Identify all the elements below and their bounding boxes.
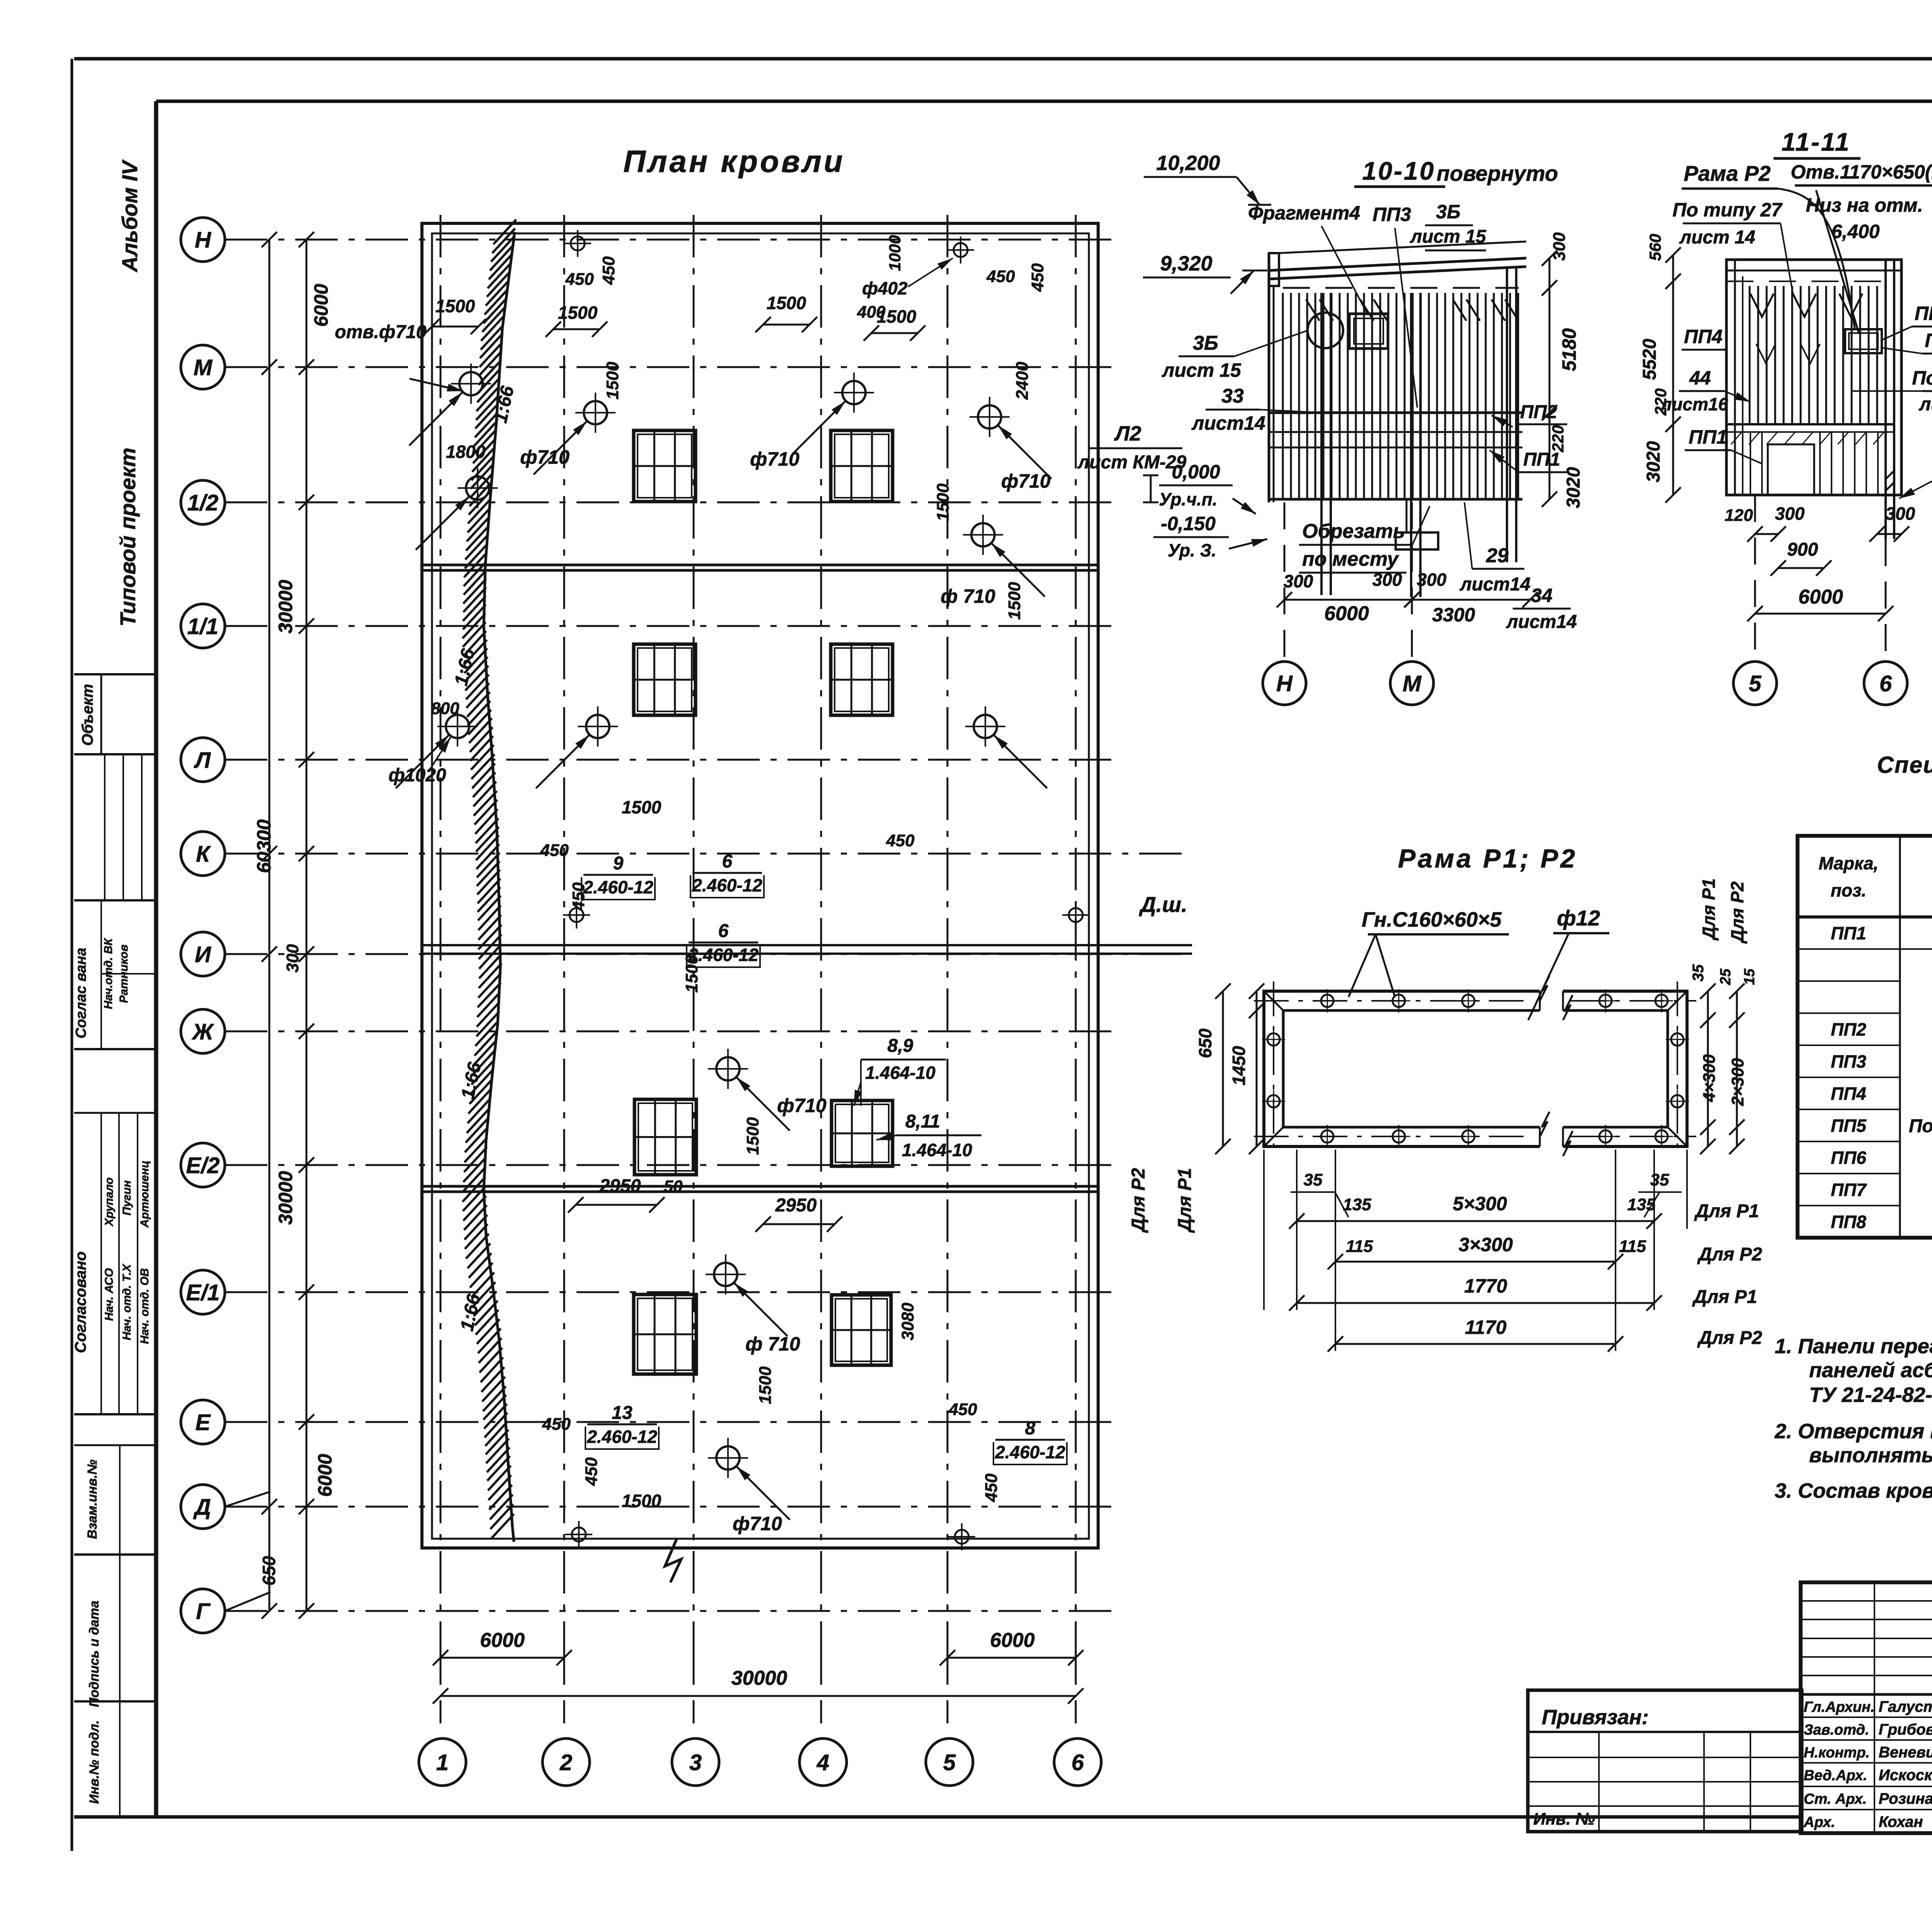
svg-text:450: 450 (1028, 263, 1047, 292)
svg-text:3Б: 3Б (1193, 332, 1218, 354)
svg-text:Марка,: Марка, (1819, 853, 1879, 873)
svg-text:Для Р2: Для Р2 (1128, 1168, 1149, 1233)
svg-text:300: 300 (1372, 570, 1402, 590)
svg-text:44: 44 (1689, 367, 1711, 389)
svg-text:1500: 1500 (435, 296, 475, 316)
svg-text:лист 15: лист 15 (1162, 359, 1242, 381)
svg-text:5: 5 (943, 1750, 956, 1775)
svg-text:ПП6: ПП6 (1831, 1148, 1866, 1168)
svg-text:300: 300 (1775, 503, 1805, 524)
svg-text:поз.: поз. (1831, 880, 1866, 900)
svg-text:220: 220 (1651, 388, 1670, 416)
svg-text:повернуто: повернуто (1437, 161, 1558, 185)
svg-text:1450: 1450 (1229, 1046, 1249, 1085)
svg-text:60300: 60300 (253, 819, 275, 873)
svg-text:33: 33 (1221, 385, 1244, 407)
svg-text:Обрезать: Обрезать (1302, 520, 1405, 543)
svg-text:1500: 1500 (767, 293, 806, 313)
svg-text:Хрупало: Хрупало (103, 1177, 116, 1227)
svg-text:1500: 1500 (558, 303, 598, 323)
svg-text:6: 6 (722, 851, 733, 872)
svg-text:Ст. Арх.: Ст. Арх. (1804, 1791, 1867, 1807)
svg-text:4×300: 4×300 (1700, 1054, 1719, 1102)
svg-text:Гл.Архин.: Гл.Архин. (1804, 1699, 1875, 1715)
svg-text:панелей асбестоцементных экс: панелей асбестоцементных экструзионных м… (1809, 1359, 1932, 1382)
svg-text:2950: 2950 (599, 1176, 641, 1196)
svg-text:ПП1: ПП1 (1831, 923, 1866, 943)
svg-text:6000: 6000 (990, 1629, 1035, 1652)
svg-text:3×300: 3×300 (1459, 1234, 1513, 1255)
svg-text:лист14: лист14 (1506, 612, 1577, 632)
svg-text:9: 9 (613, 853, 624, 874)
svg-text:35: 35 (1690, 964, 1707, 981)
svg-text:6,400: 6,400 (1831, 221, 1879, 242)
svg-text:Вед.Арх.: Вед.Арх. (1804, 1767, 1867, 1784)
svg-text:6: 6 (1879, 671, 1892, 696)
svg-text:ф12: ф12 (1557, 906, 1600, 930)
svg-text:Нач. отд. ОВ: Нач. отд. ОВ (138, 1268, 151, 1344)
svg-text:3080: 3080 (898, 1303, 917, 1340)
svg-text:Соглас вана: Соглас вана (73, 947, 89, 1038)
svg-text:5180: 5180 (1558, 328, 1580, 371)
svg-text:Для Р1: Для Р1 (1694, 1201, 1759, 1221)
svg-text:3Б: 3Б (1436, 201, 1460, 223)
svg-text:Веневцева: Веневцева (1879, 1744, 1932, 1761)
svg-text:М: М (194, 355, 213, 380)
svg-text:Согласовано: Согласовано (72, 1252, 89, 1353)
svg-text:Артюшенц: Артюшенц (138, 1160, 151, 1228)
svg-text:1/2: 1/2 (187, 490, 219, 515)
svg-text:115: 115 (1619, 1237, 1646, 1256)
svg-text:450: 450 (986, 267, 1015, 286)
svg-text:Для Р1: Для Р1 (1699, 878, 1719, 941)
svg-text:8,11: 8,11 (905, 1111, 940, 1132)
svg-text:Гн.С160×60×5: Гн.С160×60×5 (1362, 908, 1502, 931)
svg-text:лист 17: лист 17 (1918, 394, 1932, 415)
svg-text:220: 220 (1549, 425, 1567, 452)
svg-text:4: 4 (816, 1750, 829, 1775)
svg-text:ППБ: ППБ (1925, 330, 1932, 351)
svg-text:Привязан:: Привязан: (1542, 1706, 1649, 1729)
svg-text:450: 450 (542, 1415, 571, 1434)
svg-text:1000: 1000 (886, 235, 904, 271)
svg-text:Для Р2: Для Р2 (1727, 881, 1747, 944)
svg-text:450: 450 (599, 256, 618, 285)
svg-text:300: 300 (1417, 570, 1447, 590)
svg-text:5520: 5520 (1639, 338, 1660, 380)
svg-text:450: 450 (565, 270, 594, 289)
svg-text:120: 120 (1725, 506, 1753, 525)
svg-text:Е: Е (196, 1410, 211, 1435)
svg-text:8: 8 (1025, 1418, 1036, 1439)
svg-text:2.460-12: 2.460-12 (583, 877, 653, 897)
svg-text:ф 710: ф 710 (940, 585, 995, 607)
svg-text:3020: 3020 (1643, 441, 1664, 482)
svg-text:6000: 6000 (480, 1629, 525, 1652)
svg-text:1. Панели перегородок марок: 1. Панели перегородок марок ПП2...ПП7 на… (1775, 1335, 1932, 1358)
svg-text:900: 900 (1787, 539, 1818, 560)
svg-text:Рама Р1; Р2: Рама Р1; Р2 (1398, 844, 1577, 873)
svg-text:300: 300 (1284, 571, 1313, 591)
svg-text:1.464-10: 1.464-10 (902, 1140, 972, 1160)
svg-text:1800: 1800 (446, 442, 486, 462)
svg-text:План кровли: План кровли (623, 144, 845, 179)
svg-text:Пугин: Пугин (121, 1180, 133, 1216)
svg-text:Инв.№ подл.: Инв.№ подл. (87, 1720, 102, 1804)
svg-text:2950: 2950 (775, 1195, 817, 1216)
svg-text:650: 650 (1195, 1028, 1215, 1058)
svg-text:3: 3 (689, 1750, 702, 1775)
svg-text:Н.контр.: Н.контр. (1804, 1745, 1870, 1761)
svg-text:9,320: 9,320 (1160, 252, 1212, 275)
svg-text:ф710: ф710 (1001, 470, 1051, 492)
svg-text:Арх.: Арх. (1803, 1814, 1835, 1830)
svg-text:ф710: ф710 (733, 1513, 782, 1534)
svg-text:3. Состав кровли см. лист 4.: 3. Состав кровли см. лист 4. (1775, 1479, 1932, 1502)
svg-text:Е/1: Е/1 (186, 1280, 219, 1305)
svg-text:450: 450 (886, 831, 915, 850)
svg-text:1500: 1500 (1005, 582, 1024, 620)
svg-text:ПП8: ПП8 (1831, 1212, 1866, 1232)
svg-text:ф710: ф710 (777, 1095, 827, 1116)
svg-text:300: 300 (1550, 232, 1569, 261)
svg-text:Кохан: Кохан (1879, 1813, 1923, 1830)
svg-text:30000: 30000 (731, 1667, 787, 1689)
svg-text:Для Р1: Для Р1 (1692, 1287, 1757, 1307)
svg-text:По типу ТУ21-24-82-81: По типу ТУ21-24-82-81 (1909, 1116, 1932, 1136)
svg-text:К: К (196, 842, 211, 867)
svg-text:лист КМ-29: лист КМ-29 (1077, 452, 1187, 473)
svg-text:1500: 1500 (934, 483, 952, 521)
svg-text:Нач.отд. ВК: Нач.отд. ВК (102, 937, 115, 1009)
svg-text:выполнять по месту по доку: выполнять по месту по документам ТХ, ОВ,… (1809, 1444, 1932, 1467)
svg-text:И: И (195, 942, 211, 967)
svg-text:35: 35 (1650, 1170, 1669, 1189)
svg-text:ТУ 21-24-82-81.: ТУ 21-24-82-81. (1809, 1383, 1932, 1407)
svg-text:Ур. З.: Ур. З. (1168, 540, 1216, 560)
svg-text:0,000: 0,000 (1172, 461, 1220, 483)
svg-text:По типу 50: По типу 50 (1912, 367, 1932, 389)
svg-text:Н: Н (195, 228, 211, 253)
svg-text:13: 13 (612, 1403, 633, 1423)
svg-text:1500: 1500 (603, 362, 622, 400)
svg-text:По типу 27: По типу 27 (1672, 199, 1782, 221)
svg-text:2: 2 (560, 1750, 572, 1775)
svg-text:15: 15 (1742, 968, 1758, 985)
svg-text:10,200: 10,200 (1156, 151, 1220, 175)
svg-text:Для Р2: Для Р2 (1697, 1244, 1762, 1265)
svg-text:Инв. №: Инв. № (1533, 1810, 1595, 1829)
svg-text:2.460-12: 2.460-12 (692, 875, 762, 895)
svg-text:Типовой проект: Типовой проект (116, 447, 140, 626)
svg-text:Н: Н (1276, 671, 1293, 696)
svg-text:по месту: по месту (1302, 548, 1400, 570)
svg-text:Зав.отд.: Зав.отд. (1804, 1722, 1869, 1738)
svg-text:Рама Р2: Рама Р2 (1684, 161, 1770, 185)
svg-text:Подпись и дата: Подпись и дата (87, 1601, 102, 1707)
svg-text:Ж: Ж (191, 1019, 214, 1044)
svg-text:115: 115 (1346, 1237, 1373, 1256)
svg-text:25: 25 (1718, 968, 1734, 985)
svg-text:ПП3: ПП3 (1831, 1051, 1866, 1072)
svg-text:6: 6 (1071, 1750, 1084, 1775)
svg-text:5: 5 (1749, 671, 1762, 696)
svg-text:ПП7: ПП7 (1831, 1180, 1867, 1200)
svg-text:Е/2: Е/2 (186, 1153, 219, 1178)
svg-text:ПП4: ПП4 (1684, 326, 1723, 347)
svg-text:1500: 1500 (756, 1366, 775, 1404)
svg-text:35: 35 (1304, 1170, 1323, 1189)
svg-text:5×300: 5×300 (1453, 1193, 1507, 1214)
svg-text:50: 50 (664, 1177, 683, 1196)
svg-text:ф1020: ф1020 (388, 765, 446, 786)
svg-text:11-11: 11-11 (1781, 128, 1850, 156)
svg-text:1500: 1500 (622, 797, 662, 817)
svg-text:лист 15: лист 15 (1410, 226, 1486, 247)
svg-text:Л2: Л2 (1114, 422, 1141, 445)
svg-text:Нач. АСО: Нач. АСО (103, 1268, 116, 1321)
svg-text:отв.ф710: отв.ф710 (335, 322, 427, 342)
svg-text:10-10: 10-10 (1362, 156, 1435, 185)
svg-text:2.460-12: 2.460-12 (688, 945, 759, 965)
svg-text:1770: 1770 (1464, 1275, 1507, 1297)
svg-text:Для Р2: Для Р2 (1697, 1328, 1762, 1348)
svg-text:М: М (1403, 671, 1422, 696)
svg-text:1500: 1500 (743, 1117, 762, 1155)
svg-text:400: 400 (857, 303, 886, 321)
svg-text:2400: 2400 (1013, 362, 1032, 400)
svg-text:ПП1: ПП1 (1523, 449, 1560, 470)
svg-text:лист14: лист14 (1459, 574, 1531, 595)
svg-text:450: 450 (582, 1457, 601, 1486)
svg-text:ф710: ф710 (520, 446, 570, 468)
svg-text:560: 560 (1646, 234, 1664, 261)
svg-text:1: 1 (436, 1750, 449, 1775)
svg-text:1500: 1500 (622, 1491, 662, 1511)
svg-text:Ур.ч.п.: Ур.ч.п. (1159, 489, 1217, 509)
svg-text:6000: 6000 (314, 1454, 336, 1497)
svg-text:лист14: лист14 (1191, 412, 1265, 434)
svg-text:ПП5: ПП5 (1831, 1116, 1867, 1136)
svg-text:-0,150: -0,150 (1161, 513, 1216, 534)
svg-text:6: 6 (718, 921, 729, 941)
svg-text:Грибова: Грибова (1879, 1721, 1932, 1738)
svg-text:ПП1: ПП1 (1689, 426, 1727, 448)
svg-text:Д.ш.: Д.ш. (1139, 892, 1187, 917)
svg-text:6000: 6000 (1798, 586, 1843, 608)
svg-text:8,9: 8,9 (888, 1036, 913, 1056)
svg-text:450: 450 (982, 1473, 1001, 1502)
svg-text:Альбом IV: Альбом IV (117, 159, 142, 273)
svg-text:лист 14: лист 14 (1679, 227, 1755, 248)
svg-text:Розина: Розина (1879, 1790, 1932, 1807)
svg-text:2×300: 2×300 (1728, 1058, 1747, 1106)
svg-text:ПП8: ПП8 (1915, 303, 1932, 324)
svg-text:2.460-12: 2.460-12 (995, 1442, 1065, 1462)
svg-text:ПП2: ПП2 (1520, 402, 1557, 422)
svg-text:135: 135 (1343, 1195, 1371, 1214)
svg-text:Галустян: Галустян (1879, 1698, 1932, 1715)
svg-text:1.464-10: 1.464-10 (865, 1063, 935, 1083)
svg-text:6000: 6000 (310, 284, 332, 327)
svg-text:Л: Л (194, 748, 211, 773)
svg-text:6000: 6000 (1324, 602, 1369, 625)
svg-text:Ратников: Ратников (117, 944, 130, 1003)
svg-text:Д: Д (193, 1495, 211, 1520)
svg-text:29: 29 (1486, 544, 1509, 567)
svg-text:лист16: лист16 (1660, 394, 1728, 414)
svg-text:ф710: ф710 (750, 448, 799, 470)
svg-text:1170: 1170 (1465, 1317, 1507, 1338)
svg-text:1/1: 1/1 (187, 614, 219, 639)
svg-text:Спецификация панелей перегор: Спецификация панелей перегородок, замарк… (1877, 752, 1932, 778)
svg-text:2. Отверстия в перегородках: 2. Отверстия в перегородках размерами ме… (1774, 1420, 1932, 1443)
svg-text:ф402: ф402 (862, 278, 908, 298)
svg-text:ПП2: ПП2 (1831, 1019, 1866, 1039)
svg-text:Объект: Объект (79, 684, 96, 746)
svg-text:ПП4: ПП4 (1831, 1084, 1866, 1104)
svg-text:ПП3: ПП3 (1372, 204, 1411, 225)
svg-text:ф 710: ф 710 (745, 1333, 800, 1355)
svg-text:3300: 3300 (1432, 604, 1475, 626)
svg-text:30000: 30000 (275, 580, 296, 633)
svg-text:800: 800 (431, 699, 459, 718)
svg-text:300: 300 (1886, 503, 1915, 524)
svg-text:Нач. отд. Т.Х: Нач. отд. Т.Х (121, 1264, 133, 1340)
svg-text:Отв.1170×650(h): Отв.1170×650(h) (1791, 161, 1932, 183)
svg-text:450: 450 (540, 841, 569, 860)
svg-text:450: 450 (948, 1400, 977, 1419)
svg-text:Искоскова: Искоскова (1879, 1767, 1932, 1784)
svg-text:650: 650 (259, 1556, 279, 1585)
svg-text:Для Р1: Для Р1 (1175, 1168, 1195, 1233)
svg-text:2.460-12: 2.460-12 (587, 1427, 657, 1447)
svg-text:Взам.инв.№: Взам.инв.№ (85, 1459, 100, 1539)
svg-text:300: 300 (283, 944, 302, 973)
svg-text:30000: 30000 (275, 1171, 296, 1225)
svg-text:Г: Г (196, 1599, 211, 1624)
